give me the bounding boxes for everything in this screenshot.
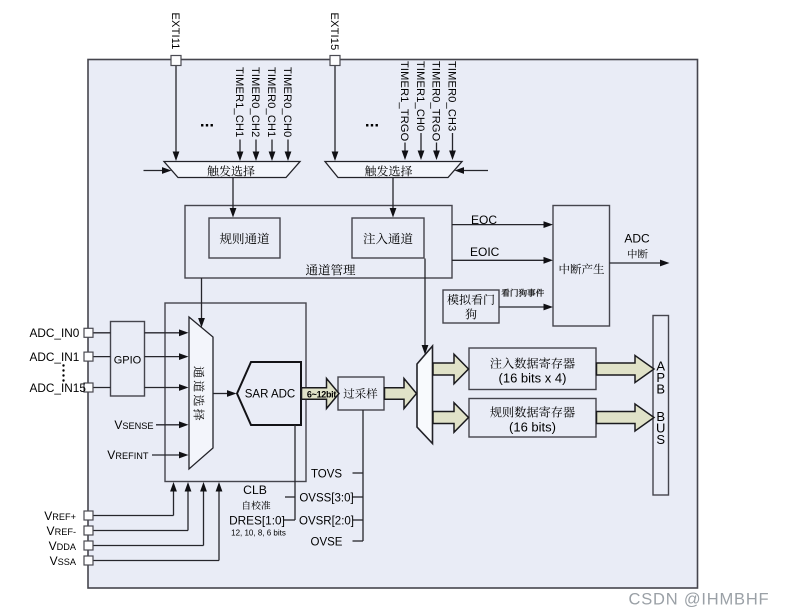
svg-text:DRES[1:0]: DRES[1:0]: [229, 514, 285, 528]
label GPIO: [114, 355, 142, 367]
label OVSR: [299, 515, 354, 527]
svg-text:ADC_IN1: ADC_IN1: [30, 350, 80, 364]
label VSSA: [50, 554, 77, 568]
label VREF+: [44, 509, 76, 523]
arrow demux to regular register: [433, 403, 469, 433]
interrupt generation box: [553, 206, 610, 327]
arrow regular register to APB: [597, 404, 655, 431]
wire injected channel to demux: [422, 259, 429, 355]
label analog watchdog line2: [465, 308, 476, 319]
label CLB: [243, 483, 267, 497]
label TIMER0_CH3: [446, 61, 458, 131]
svg-text:TIMER0_CH0: TIMER0_CH0: [281, 67, 293, 137]
wire ADC interrupt out: [610, 260, 670, 267]
label TIMER0_CH1: [265, 67, 277, 137]
label VDDA: [49, 539, 77, 553]
svg-text:TIMER0_TRGO: TIMER0_TRGO: [430, 61, 442, 142]
svg-text:VSENSE: VSENSE: [114, 418, 153, 432]
channel management box: [185, 206, 452, 279]
pin EXTI11: [171, 56, 181, 66]
label VREFINT: [107, 448, 149, 462]
label interrupt generation: [560, 264, 604, 275]
label TIMER1_CH1: [233, 67, 245, 137]
GPIO box: [111, 322, 145, 397]
ADC block outer boundary: [88, 60, 698, 589]
regular channel box: [209, 218, 280, 258]
wire VSENSE: [156, 421, 189, 428]
wire TIMER0_CH2: [253, 140, 260, 162]
pin ADC_IN1: [84, 352, 93, 361]
label injected register bits: [499, 371, 567, 386]
arrow oversampler to demux: [385, 379, 417, 409]
wire into left trigger mux: [144, 167, 172, 174]
analog watchdog box: [443, 290, 499, 323]
wire VDDA: [93, 482, 207, 546]
wire TIMER0_CH3: [449, 133, 456, 160]
label TIMER0_CH2: [249, 67, 261, 137]
svg-text:ADC_IN0: ADC_IN0: [30, 326, 80, 340]
label watchdog event: [502, 289, 544, 297]
label OVSE: [311, 536, 343, 548]
wire EXTI15 to trigger mux: [332, 65, 339, 161]
svg-text:VSSA: VSSA: [50, 554, 77, 568]
injected channel box: [352, 218, 424, 258]
wire VSSA: [93, 482, 222, 561]
wire TIMER1_CH0: [418, 133, 425, 160]
label 6~12bit: [307, 389, 336, 399]
ellipsis right: [365, 112, 379, 131]
wire mgmt to channel-select mux: [198, 278, 205, 328]
label ADC_IN0: [30, 326, 80, 340]
injected data register box: [469, 348, 596, 390]
label TIMER1_CH0: [414, 61, 426, 131]
data demux: [417, 346, 433, 444]
svg-text:EOIC: EOIC: [470, 245, 500, 259]
label EXTI11: [169, 13, 181, 50]
label regular data register: [490, 406, 575, 417]
svg-text:TIMER1_CH0: TIMER1_CH0: [414, 61, 426, 131]
wire mux to SAR: [213, 390, 237, 397]
pin VREF-: [84, 526, 93, 535]
label regular register bits: [509, 420, 556, 435]
svg-text:TIMER1_CH1: TIMER1_CH1: [233, 67, 245, 137]
wire watchdog event: [499, 304, 553, 311]
analog block inner box: [165, 303, 306, 482]
label interrupt: [628, 249, 648, 259]
label TIMER1_TRGO: [398, 61, 410, 142]
wire VREF-: [93, 482, 191, 531]
label VREF-: [47, 524, 76, 538]
label ADC: [624, 232, 650, 246]
label regular channel: [220, 233, 269, 244]
watermark: [629, 591, 770, 609]
label APB BUS: [656, 359, 665, 448]
label injected channel: [364, 233, 413, 245]
svg-text:CSDN @IHMBHF: CSDN @IHMBHF: [629, 591, 770, 609]
wire TIMER0_CH0: [285, 140, 292, 162]
arrow injected register to APB: [597, 356, 655, 383]
svg-text:ADC_IN15: ADC_IN15: [30, 381, 87, 395]
arrow demux to injected register: [433, 354, 469, 384]
wire TIMER1_TRGO: [402, 143, 409, 161]
label EXTI15: [328, 13, 340, 51]
svg-text:OVSS[3:0]: OVSS[3:0]: [299, 492, 353, 504]
ellipsis left: [200, 112, 214, 131]
svg-text:6~12bit: 6~12bit: [307, 389, 336, 399]
regular data register box: [469, 399, 596, 438]
svg-text:TOVS: TOVS: [311, 468, 342, 480]
svg-text:...: ...: [200, 112, 214, 131]
wire VREF+: [93, 482, 177, 516]
pin EXTI15: [330, 56, 340, 66]
wire GPIO to channel mux row ADC_IN1: [145, 353, 189, 360]
label SAR ADC: [245, 389, 296, 401]
APB bus box: [653, 316, 669, 496]
svg-text:VREF-: VREF-: [47, 524, 76, 538]
wire into right trigger mux: [455, 167, 489, 174]
data width arrow 6~12bit: [302, 379, 340, 409]
svg-text:ADC: ADC: [624, 232, 650, 246]
svg-text:SAR ADC: SAR ADC: [245, 389, 296, 401]
label injected data register: [490, 357, 575, 368]
svg-text:TIMER0_CH3: TIMER0_CH3: [446, 61, 458, 131]
pin VDDA: [84, 541, 93, 550]
label ADC_IN1: [30, 350, 80, 364]
wire TIMER0_TRGO: [433, 143, 440, 161]
svg-text:OVSE: OVSE: [311, 536, 343, 548]
label DRES: [229, 514, 285, 528]
label VSENSE: [114, 418, 153, 432]
wire GPIO to channel mux row ADC_IN0: [145, 329, 189, 336]
label DRES bits: [231, 528, 286, 537]
wire ADC_IN0 to GPIO: [93, 332, 111, 334]
label self-calibration: [243, 501, 270, 510]
wire TIMER1_CH1: [237, 140, 244, 162]
label trigger-select right: [365, 165, 412, 176]
svg-text:(16 bits x 4): (16 bits x 4): [499, 371, 567, 386]
svg-text:(16 bits): (16 bits): [509, 420, 556, 435]
wire left trigger mux to regular channel: [230, 178, 237, 218]
pin ADC_IN15: [84, 383, 93, 392]
svg-text:GPIO: GPIO: [114, 355, 142, 367]
svg-text:EXTI15: EXTI15: [328, 13, 340, 51]
label analog watchdog line1: [447, 294, 494, 305]
label channel management: [306, 264, 355, 276]
wire EOC: [452, 221, 553, 228]
label EOIC: [470, 245, 500, 259]
pin VSSA: [84, 556, 93, 565]
wire TIMER0_CH1: [269, 140, 276, 162]
wire oversampler signals: [353, 410, 364, 541]
label trigger-select left: [207, 165, 254, 176]
svg-text:VREF+: VREF+: [44, 509, 76, 523]
svg-text:B: B: [656, 382, 665, 397]
pin ADC_IN0: [84, 328, 93, 337]
svg-text:...: ...: [365, 112, 379, 131]
SAR ADC converter: [237, 362, 301, 425]
label TIMER0_CH0: [281, 67, 293, 137]
wire SAR to calibration: [284, 425, 295, 520]
svg-text:EOC: EOC: [471, 213, 497, 227]
svg-text:S: S: [656, 432, 665, 447]
label OVSS: [299, 492, 353, 504]
label oversampler: [344, 388, 378, 399]
svg-text:TIMER0_CH1: TIMER0_CH1: [265, 67, 277, 137]
wire GPIO to channel mux row ADC_IN15: [145, 384, 189, 391]
label TIMER0_TRGO: [430, 61, 442, 142]
label channel selection: [193, 366, 204, 420]
svg-text:VREFINT: VREFINT: [107, 448, 149, 462]
svg-text:TIMER1_TRGO: TIMER1_TRGO: [398, 61, 410, 142]
wire right trigger mux to injected channel: [390, 178, 397, 218]
trigger selection mux right: [325, 162, 462, 178]
wire EXTI11 to trigger mux: [173, 65, 180, 161]
svg-text:12, 10, 8, 6 bits: 12, 10, 8, 6 bits: [231, 528, 286, 537]
wire ADC_IN1 to GPIO: [93, 356, 111, 358]
wire VREFINT: [152, 452, 189, 459]
svg-text:CLB: CLB: [243, 483, 267, 497]
wire ADC_IN15 to GPIO: [93, 387, 111, 389]
trigger selection mux left: [164, 162, 300, 178]
label TOVS: [311, 468, 342, 480]
svg-text:TIMER0_CH2: TIMER0_CH2: [249, 67, 261, 137]
label ADC_IN15: [30, 381, 87, 395]
channel selection mux: [189, 317, 213, 469]
vertical dots: [62, 364, 64, 381]
wire EOIC: [452, 257, 553, 264]
label EOC: [471, 213, 497, 227]
svg-text:OVSR[2:0]: OVSR[2:0]: [299, 515, 354, 527]
svg-text:VDDA: VDDA: [49, 539, 77, 553]
pin VREF+: [84, 511, 93, 520]
svg-text:EXTI11: EXTI11: [169, 13, 181, 50]
oversampler box: [338, 377, 384, 410]
